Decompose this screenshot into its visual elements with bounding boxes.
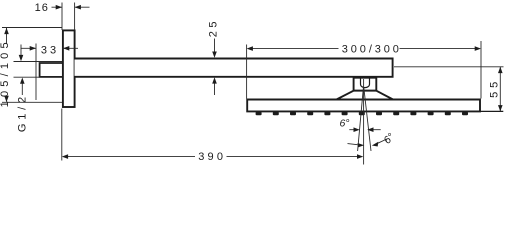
angle upper arrowheads [354, 127, 360, 132]
dim 300/300 arrowheads [247, 46, 253, 51]
dim 105/105 bottom extension [2, 101, 62, 103]
shower arm [75, 59, 393, 77]
dim 25 arrowheads [212, 52, 217, 58]
dim 390 arrowheads [62, 154, 68, 159]
dim 390 extension line [61, 109, 63, 161]
angle lower arrowheads [358, 143, 365, 147]
dim G1/2 top extension [14, 61, 63, 63]
dim 16 arrowheads [56, 5, 62, 10]
ball socket inner U [361, 78, 370, 88]
dim 25 upper arrow shaft [214, 39, 216, 55]
dim 33 arrow shafts [21, 47, 79, 49]
cone mount [336, 91, 395, 100]
dim 105/105 dimension line [6, 28, 8, 102]
dim 300/300 left extension [246, 45, 248, 99]
angle lower-left arrow shaft [348, 144, 358, 145]
svg-text:390: 390 [198, 151, 226, 163]
dim G1/2 lower arrow shaft [21, 83, 23, 96]
svg-text:33: 33 [41, 45, 59, 57]
svg-text:G1/2: G1/2 [17, 93, 29, 132]
svg-text:25: 25 [208, 18, 220, 37]
spray axis center line [363, 79, 365, 165]
dim 55 dimension line [499, 67, 501, 112]
nozzle teeth [256, 112, 468, 115]
dim 16 arrow shafts [52, 6, 90, 8]
dim 300/300 right extension [480, 41, 482, 99]
tilt line left 6deg [358, 88, 364, 152]
angle lower-right arrow shaft [378, 139, 387, 143]
svg-text:55: 55 [488, 78, 500, 98]
dim 33 arrowheads [30, 46, 36, 51]
dim G1/2 upper arrow shaft [20, 45, 22, 57]
dim 105/105 arrowheads [4, 28, 9, 34]
svg-text:16: 16 [35, 2, 49, 14]
dim 55 top extension [394, 66, 504, 68]
dim G1/2 arrowheads [19, 55, 24, 61]
angle upper arrow shafts [349, 129, 380, 131]
dim G1/2 bottom extension [14, 76, 63, 78]
dim 390 dimension line [67, 156, 358, 158]
svg-text:300/300: 300/300 [342, 44, 402, 56]
tilt line right 6deg [364, 88, 371, 152]
ball joint flange [354, 78, 377, 91]
shower head plate [247, 100, 480, 112]
dim 105/105 top extension [2, 27, 62, 29]
dim 25 lower arrow shaft [214, 81, 216, 95]
dim 55 arrowheads [498, 67, 503, 73]
wall plate [63, 30, 75, 107]
svg-text:105/105: 105/105 [0, 38, 11, 107]
dim 33 extension line [35, 44, 37, 101]
dim 300/300 dimension line [252, 48, 476, 50]
dim 16 extension lines [62, 3, 75, 31]
inlet stub (G1/2 connector) [40, 63, 63, 77]
svg-text:6°: 6° [339, 118, 349, 130]
